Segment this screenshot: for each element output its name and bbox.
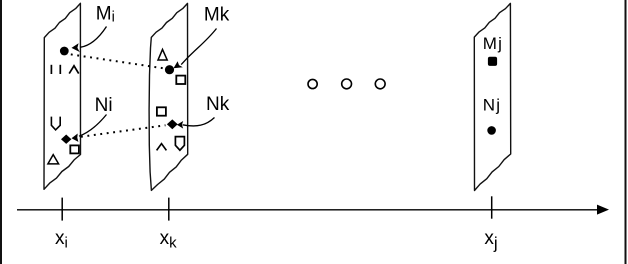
point Mk (filled circle) [165,65,174,74]
svg-text:xk: xk [160,228,178,252]
mark vee with stubs [51,117,60,130]
point Ni (filled diamond) [61,135,71,144]
dotted correspondence line Ni-Nk [75,125,166,137]
open triangle in plane i [48,155,59,164]
svg-text:Mi: Mi [96,4,115,26]
plane at x_i [44,3,81,189]
leader arrow from Mk label to point [181,29,216,65]
svg-text:xi: xi [55,228,68,252]
mark wedge up [69,66,79,74]
axis arrowhead [597,205,609,215]
point Mj (filled square) [488,57,497,66]
leader arrow from Nk label to point [183,118,215,126]
ellipsis circle 3 [375,79,385,89]
svg-text:Mk: Mk [204,5,230,26]
open square in plane i [70,145,79,153]
mark bar 2 [59,65,61,74]
svg-text:Mj: Mj [483,34,504,53]
open triangle in plane k [158,49,167,60]
left border line [0,0,2,264]
svg-text:Ni: Ni [95,95,113,116]
point Mi (filled circle) [60,47,69,56]
ellipsis circle 2 [342,79,352,89]
tick x_k [168,198,170,221]
point Nk (filled diamond) [167,119,178,129]
dotted correspondence line Mi-Mk [71,54,164,68]
svg-text:xj: xj [484,228,497,253]
leader arrow from Ni label to point [79,115,107,137]
svg-text:Nj: Nj [483,96,502,115]
ellipsis circle 1 [308,79,317,88]
plane at x_k [149,3,188,190]
open square lower in plane k [157,107,166,115]
time axis line [17,209,599,211]
tick x_i [61,198,63,221]
leader arrow from Mi label to point [80,27,107,48]
point Nj (filled circle) [487,126,496,135]
svg-text:Nk: Nk [206,94,230,115]
mark bar 1 [50,65,52,74]
tick x_j [491,196,493,218]
mark wedge up in plane k [157,144,167,151]
open pentagon shield in plane k [175,137,184,151]
right border line [625,0,627,264]
plane at x_j [474,3,510,190]
open square upper in plane k [176,76,185,84]
